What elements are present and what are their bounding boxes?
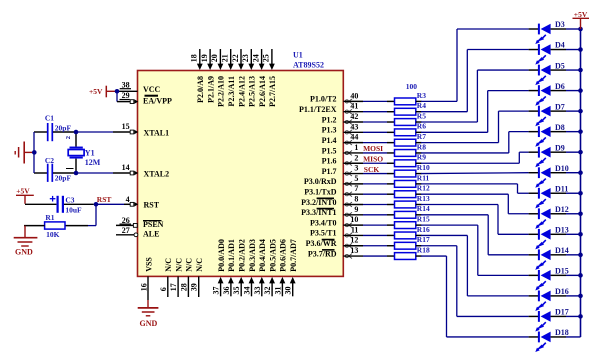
svg-text:GND: GND <box>15 248 33 257</box>
svg-text:7: 7 <box>354 184 358 193</box>
svg-text:10uF: 10uF <box>65 206 82 215</box>
svg-text:Y1: Y1 <box>85 148 95 157</box>
svg-text:P0.6/AD6: P0.6/AD6 <box>279 239 288 272</box>
svg-text:VSS: VSS <box>145 257 154 272</box>
svg-text:P0.0/AD0: P0.0/AD0 <box>217 239 226 272</box>
svg-text:R7: R7 <box>417 132 426 141</box>
svg-text:D4: D4 <box>555 41 565 50</box>
svg-text:10K: 10K <box>46 230 60 239</box>
svg-text:P0.4/AD4: P0.4/AD4 <box>258 239 267 272</box>
svg-text:P2.0/A8: P2.0/A8 <box>196 76 205 103</box>
svg-text:R8: R8 <box>417 142 426 151</box>
svg-text:D7: D7 <box>555 102 565 111</box>
svg-text:P2.3/A11: P2.3/A11 <box>227 76 236 106</box>
svg-text:R12: R12 <box>417 184 430 193</box>
svg-text:14: 14 <box>122 163 130 172</box>
svg-text:MISO: MISO <box>363 155 383 164</box>
svg-text:D5: D5 <box>555 61 565 70</box>
svg-text:24: 24 <box>251 54 260 62</box>
svg-text:RST: RST <box>144 200 160 209</box>
svg-text:P1.7: P1.7 <box>322 167 337 176</box>
svg-text:PSEN: PSEN <box>143 220 164 229</box>
svg-text:23: 23 <box>241 54 250 62</box>
svg-text:17: 17 <box>169 283 178 291</box>
svg-text:P3.7/RD: P3.7/RD <box>308 249 337 258</box>
svg-text:N/C: N/C <box>185 258 194 272</box>
svg-text:P0.1/AD1: P0.1/AD1 <box>227 239 236 272</box>
svg-text:P1.3: P1.3 <box>322 126 337 135</box>
svg-text:EA/VPP: EA/VPP <box>143 97 172 106</box>
svg-text:P3.1/TxD: P3.1/TxD <box>304 187 336 196</box>
svg-text:D14: D14 <box>555 246 569 255</box>
svg-text:9: 9 <box>354 205 358 214</box>
svg-text:D13: D13 <box>555 226 569 235</box>
svg-text:5: 5 <box>354 174 358 183</box>
svg-text:P0.3/AD3: P0.3/AD3 <box>248 239 257 272</box>
svg-text:XTAL1: XTAL1 <box>144 129 170 138</box>
svg-text:R14: R14 <box>417 204 430 213</box>
svg-text:P2.4/A12: P2.4/A12 <box>237 76 246 107</box>
svg-text:29: 29 <box>122 91 130 100</box>
svg-text:P2.2/A10: P2.2/A10 <box>217 76 226 107</box>
svg-text:VCC: VCC <box>143 85 161 94</box>
svg-text:P1.6: P1.6 <box>322 157 337 166</box>
svg-text:D3: D3 <box>555 20 565 29</box>
svg-text:3: 3 <box>354 164 358 173</box>
svg-text:D10: D10 <box>555 164 569 173</box>
svg-text:N/C: N/C <box>164 258 173 272</box>
svg-text:30: 30 <box>284 287 293 295</box>
svg-text:31: 31 <box>273 287 282 295</box>
svg-text:P1.4: P1.4 <box>322 136 337 145</box>
svg-text:R15: R15 <box>417 215 430 224</box>
svg-text:+5V: +5V <box>89 87 103 96</box>
svg-text:2: 2 <box>354 153 358 162</box>
svg-text:35: 35 <box>232 287 241 295</box>
svg-text:C1: C1 <box>45 113 54 122</box>
svg-text:R1: R1 <box>45 213 54 222</box>
svg-text:36: 36 <box>222 287 231 295</box>
svg-text:P0.5/AD5: P0.5/AD5 <box>268 239 277 272</box>
svg-text:N/C: N/C <box>174 258 183 272</box>
svg-text:N/C: N/C <box>195 258 204 272</box>
svg-text:25: 25 <box>262 54 271 62</box>
svg-text:P3.2/INT0: P3.2/INT0 <box>301 198 336 207</box>
svg-text:P0.7/AD7: P0.7/AD7 <box>289 239 298 272</box>
svg-text:28: 28 <box>179 283 188 291</box>
svg-text:GND: GND <box>140 319 158 328</box>
svg-text:D8: D8 <box>555 123 565 132</box>
svg-text:P3.5/T1: P3.5/T1 <box>310 229 336 238</box>
svg-text:R18: R18 <box>417 245 430 254</box>
svg-text:P3.3/INT1: P3.3/INT1 <box>301 208 336 217</box>
svg-text:P2.1/A9: P2.1/A9 <box>206 76 215 103</box>
svg-text:P3.0/RxD: P3.0/RxD <box>304 177 337 186</box>
svg-text:D16: D16 <box>555 287 569 296</box>
svg-text:D17: D17 <box>555 308 569 317</box>
svg-text:P1.0/T2: P1.0/T2 <box>310 95 336 104</box>
svg-text:D9: D9 <box>555 143 565 152</box>
svg-text:20pF: 20pF <box>55 123 72 132</box>
svg-text:+5V: +5V <box>16 187 30 196</box>
svg-text:R9: R9 <box>417 153 426 162</box>
svg-text:XTAL2: XTAL2 <box>144 170 170 179</box>
svg-text:P1.1/T2EX: P1.1/T2EX <box>299 105 337 114</box>
svg-text:P0.2/AD2: P0.2/AD2 <box>238 239 247 272</box>
svg-text:20pF: 20pF <box>55 173 72 182</box>
svg-text:12M: 12M <box>85 158 101 167</box>
svg-text:2: 2 <box>65 136 72 139</box>
svg-text:R3: R3 <box>417 91 426 100</box>
svg-text:19: 19 <box>200 54 209 62</box>
svg-text:32: 32 <box>263 287 272 295</box>
svg-text:39: 39 <box>190 283 199 291</box>
svg-text:D6: D6 <box>555 82 565 91</box>
svg-text:ALE: ALE <box>143 229 159 238</box>
svg-text:MOSI: MOSI <box>363 144 383 153</box>
svg-text:D15: D15 <box>555 267 569 276</box>
svg-text:P2.5/A13: P2.5/A13 <box>248 76 257 107</box>
svg-text:22: 22 <box>231 54 240 62</box>
svg-text:RST: RST <box>97 195 112 204</box>
svg-text:37: 37 <box>212 287 221 295</box>
svg-text:P3.6/WR: P3.6/WR <box>306 239 337 248</box>
svg-text:C2: C2 <box>45 156 54 165</box>
svg-text:21: 21 <box>221 54 230 62</box>
svg-text:R11: R11 <box>417 173 430 182</box>
svg-text:P1.2: P1.2 <box>322 115 337 124</box>
svg-text:27: 27 <box>122 226 130 235</box>
svg-text:R16: R16 <box>417 225 430 234</box>
svg-text:AT89S52: AT89S52 <box>293 60 324 69</box>
svg-text:4: 4 <box>126 195 130 204</box>
svg-text:15: 15 <box>122 122 130 131</box>
svg-text:R5: R5 <box>417 111 426 120</box>
svg-text:P2.6/A14: P2.6/A14 <box>258 76 267 107</box>
svg-text:8: 8 <box>354 195 358 204</box>
svg-text:6: 6 <box>159 287 168 291</box>
svg-text:U1: U1 <box>293 51 303 60</box>
svg-text:34: 34 <box>243 287 252 295</box>
svg-text:33: 33 <box>253 287 262 295</box>
svg-text:20: 20 <box>210 54 219 62</box>
svg-text:D12: D12 <box>555 205 569 214</box>
svg-text:D11: D11 <box>555 184 568 193</box>
svg-text:18: 18 <box>190 54 199 62</box>
svg-text:C3: C3 <box>65 196 74 205</box>
svg-text:D18: D18 <box>555 328 569 337</box>
svg-text:P2.7/A15: P2.7/A15 <box>268 76 277 107</box>
svg-text:P1.5: P1.5 <box>322 146 337 155</box>
svg-text:SCK: SCK <box>364 165 380 174</box>
svg-text:P3.4/T0: P3.4/T0 <box>310 218 336 227</box>
svg-text:R4: R4 <box>417 101 426 110</box>
svg-text:R10: R10 <box>417 163 430 172</box>
svg-text:+5V: +5V <box>574 10 588 19</box>
svg-text:R6: R6 <box>417 122 426 131</box>
svg-text:R13: R13 <box>417 194 430 203</box>
svg-text:1: 1 <box>354 143 358 152</box>
svg-text:R17: R17 <box>417 235 430 244</box>
svg-text:100: 100 <box>406 82 418 91</box>
svg-text:16: 16 <box>140 283 149 291</box>
